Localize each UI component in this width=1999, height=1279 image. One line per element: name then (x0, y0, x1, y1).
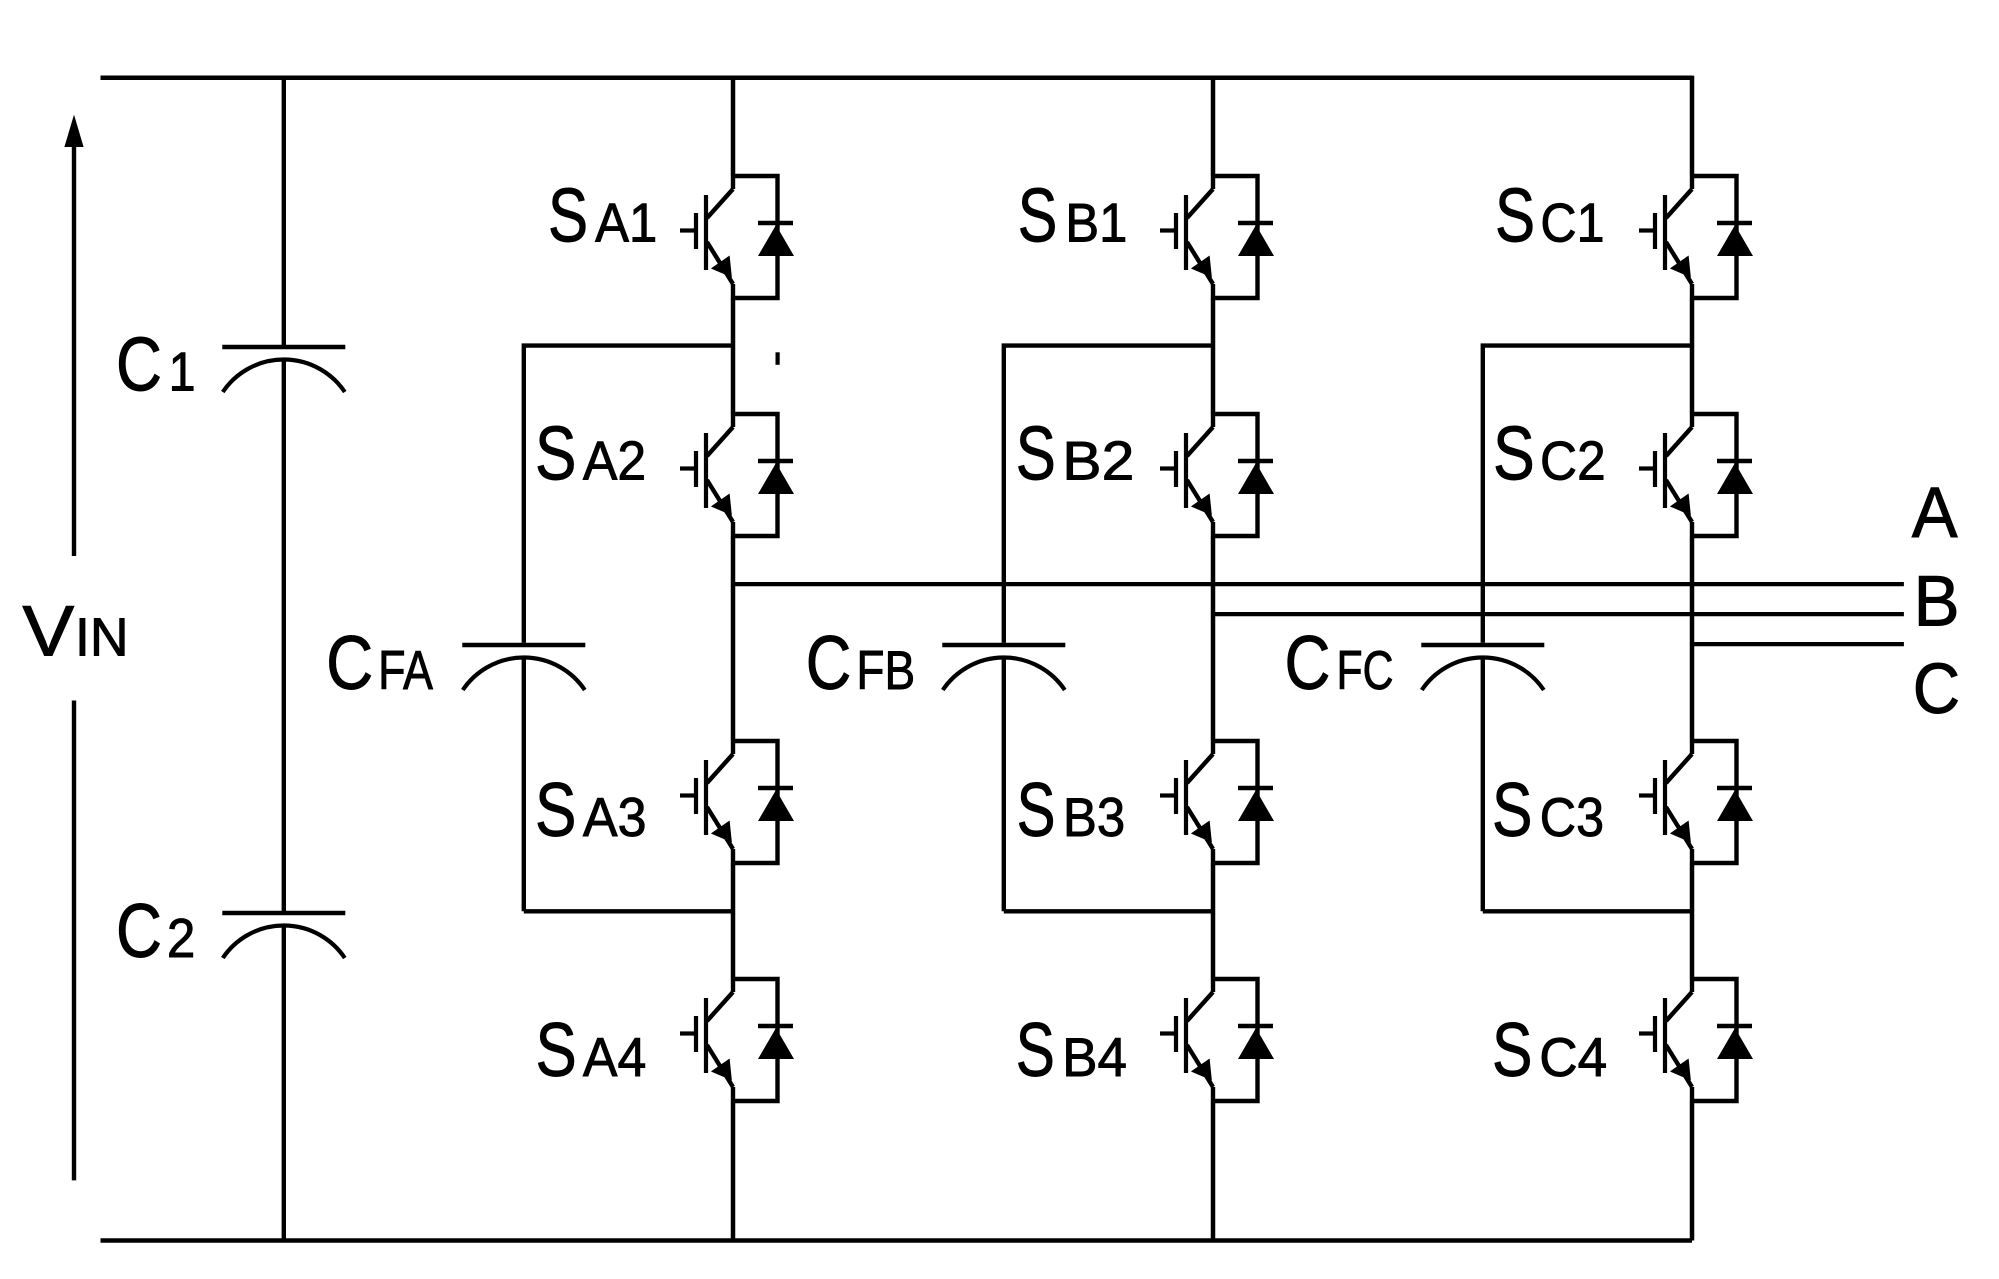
svg-text:C: C (116, 889, 162, 974)
svg-text:A3: A3 (583, 786, 647, 848)
svg-text:C3: C3 (1540, 786, 1604, 848)
svg-text:S: S (1017, 768, 1056, 853)
svg-text:FC: FC (1337, 639, 1394, 701)
svg-text:C: C (116, 323, 162, 408)
svg-text:S: S (1493, 412, 1535, 497)
svg-text:IN: IN (75, 608, 129, 668)
svg-text:S: S (536, 1008, 577, 1093)
svg-text:A: A (1912, 474, 1958, 553)
svg-text:S: S (1016, 412, 1056, 497)
svg-text:2: 2 (167, 907, 195, 969)
svg-text:C4: C4 (1539, 1026, 1607, 1088)
svg-text:S: S (548, 174, 588, 259)
svg-text:S: S (535, 412, 576, 497)
svg-text:C: C (806, 621, 852, 706)
svg-text:S: S (535, 768, 576, 853)
svg-text:S: S (1492, 1008, 1532, 1093)
svg-text:B: B (1914, 563, 1960, 642)
svg-text:S: S (1495, 174, 1535, 259)
svg-text:FA: FA (378, 639, 433, 701)
svg-text:B4: B4 (1062, 1026, 1127, 1088)
svg-text:C1: C1 (1540, 192, 1604, 254)
svg-text:C: C (1913, 650, 1960, 729)
svg-text:A4: A4 (583, 1026, 646, 1088)
svg-text:B3: B3 (1063, 786, 1125, 848)
svg-text:C: C (1285, 621, 1331, 706)
svg-text:A1: A1 (595, 192, 657, 254)
svg-text:C2: C2 (1540, 430, 1606, 492)
svg-text:S: S (1492, 768, 1532, 853)
svg-text:A2: A2 (583, 430, 646, 492)
svg-text:S: S (1016, 1008, 1055, 1093)
svg-text:C: C (326, 621, 373, 706)
svg-text:V: V (22, 593, 75, 672)
svg-text:B1: B1 (1065, 192, 1127, 254)
svg-text:FB: FB (856, 639, 915, 701)
svg-text:1: 1 (169, 341, 196, 403)
svg-text:S: S (1018, 174, 1058, 259)
svg-text:B2: B2 (1062, 430, 1134, 492)
